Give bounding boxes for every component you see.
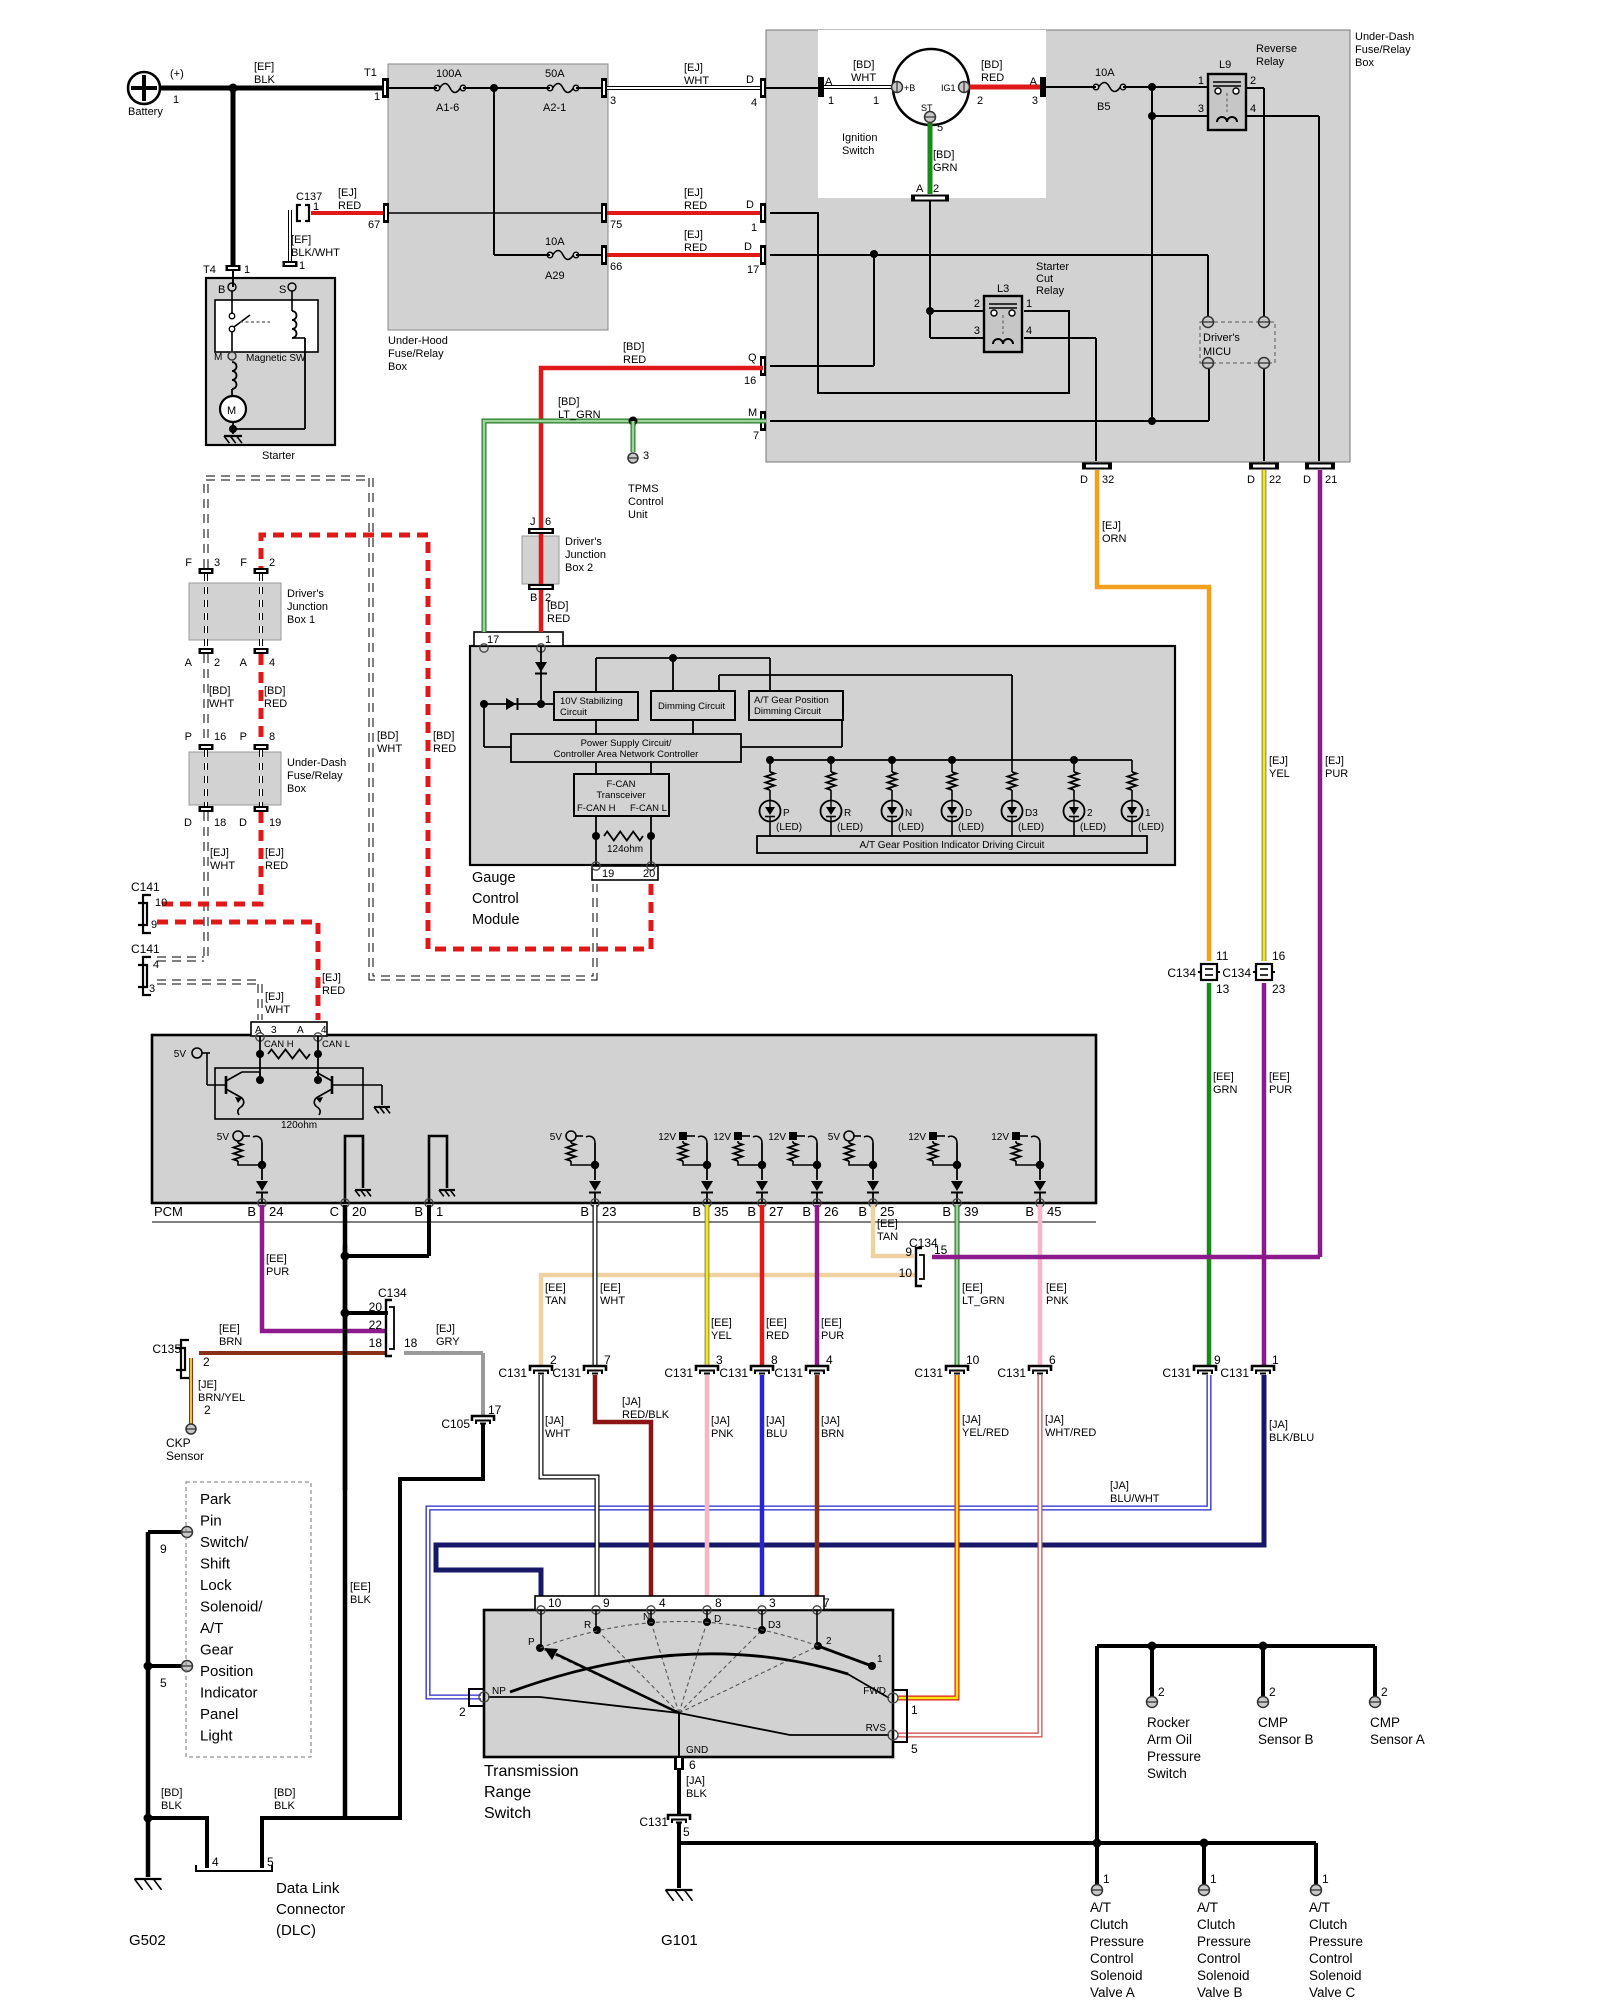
svg-text:3: 3 xyxy=(769,1596,776,1610)
svg-text:Switch/: Switch/ xyxy=(200,1534,249,1551)
svg-text:1: 1 xyxy=(1103,1872,1110,1886)
svg-text:5: 5 xyxy=(911,1742,918,1756)
svg-text:T4: T4 xyxy=(203,264,216,276)
svg-text:[BD]: [BD] xyxy=(547,600,568,612)
svg-text:[EE]: [EE] xyxy=(1213,1071,1234,1083)
svg-text:MICU: MICU xyxy=(1203,346,1231,358)
svg-text:Range: Range xyxy=(484,1784,531,1801)
svg-text:[EJ]: [EJ] xyxy=(265,991,284,1003)
svg-text:A1-6: A1-6 xyxy=(436,102,459,114)
svg-text:B: B xyxy=(692,1204,701,1219)
svg-text:[EJ]: [EJ] xyxy=(684,187,703,199)
svg-text:WHT: WHT xyxy=(684,75,709,87)
svg-text:C131: C131 xyxy=(997,1366,1026,1380)
svg-text:RED: RED xyxy=(433,743,456,755)
svg-text:Fuse/Relay: Fuse/Relay xyxy=(1355,44,1411,56)
svg-text:Control: Control xyxy=(472,891,519,907)
svg-text:Cut: Cut xyxy=(1036,273,1053,285)
svg-text:5V: 5V xyxy=(550,1132,563,1143)
svg-text:B: B xyxy=(1025,1204,1034,1219)
svg-text:A: A xyxy=(255,1025,262,1036)
svg-text:50A: 50A xyxy=(545,68,565,80)
svg-text:B: B xyxy=(580,1204,589,1219)
svg-text:ORN: ORN xyxy=(1102,533,1127,545)
svg-text:B: B xyxy=(530,592,537,604)
svg-text:25: 25 xyxy=(880,1204,894,1219)
svg-text:4: 4 xyxy=(321,1025,327,1036)
svg-text:G101: G101 xyxy=(661,1932,698,1949)
svg-text:5V: 5V xyxy=(174,1049,187,1060)
svg-text:(LED): (LED) xyxy=(958,822,984,833)
svg-text:D: D xyxy=(714,1614,721,1625)
svg-text:RED: RED xyxy=(322,985,345,997)
svg-text:1: 1 xyxy=(299,260,305,272)
svg-text:Sensor B: Sensor B xyxy=(1258,1732,1314,1747)
svg-text:9: 9 xyxy=(603,1596,610,1610)
svg-text:Solenoid: Solenoid xyxy=(1197,1968,1250,1983)
svg-text:RVS: RVS xyxy=(866,1723,887,1734)
svg-text:A/T: A/T xyxy=(200,1620,223,1637)
svg-text:Indicator: Indicator xyxy=(200,1685,258,1702)
svg-text:2: 2 xyxy=(1087,808,1093,819)
svg-text:2: 2 xyxy=(1269,1685,1276,1699)
svg-text:Park: Park xyxy=(200,1491,231,1508)
svg-text:Clutch: Clutch xyxy=(1090,1917,1128,1932)
svg-text:P: P xyxy=(185,731,192,743)
svg-text:18: 18 xyxy=(369,1336,383,1350)
svg-text:11: 11 xyxy=(1216,949,1229,963)
svg-text:[EJ]: [EJ] xyxy=(1325,755,1344,767)
svg-text:9: 9 xyxy=(151,919,157,931)
svg-text:Valve A: Valve A xyxy=(1090,1985,1135,2000)
svg-text:39: 39 xyxy=(964,1204,978,1219)
svg-text:4: 4 xyxy=(659,1596,666,1610)
svg-text:2: 2 xyxy=(550,1353,557,1367)
svg-text:2: 2 xyxy=(1381,1685,1388,1699)
svg-text:Switch: Switch xyxy=(1147,1766,1187,1781)
svg-text:9: 9 xyxy=(1214,1353,1221,1367)
svg-text:[JA]: [JA] xyxy=(545,1415,564,1427)
svg-text:Under-Dash: Under-Dash xyxy=(1355,31,1414,43)
svg-text:R: R xyxy=(584,1620,591,1631)
svg-text:5: 5 xyxy=(160,1676,167,1690)
svg-text:[EE]: [EE] xyxy=(600,1282,621,1294)
svg-text:Solenoid: Solenoid xyxy=(1309,1968,1362,1983)
svg-text:Control: Control xyxy=(1090,1951,1134,1966)
svg-text:2: 2 xyxy=(1250,75,1256,87)
svg-text:20: 20 xyxy=(643,868,655,880)
svg-text:10: 10 xyxy=(899,1266,913,1280)
svg-text:BLK: BLK xyxy=(350,1594,371,1606)
svg-text:RED: RED xyxy=(684,242,707,254)
svg-text:Control: Control xyxy=(1309,1951,1353,1966)
svg-text:[BD]: [BD] xyxy=(209,685,230,697)
svg-text:66: 66 xyxy=(610,261,622,273)
svg-text:RED: RED xyxy=(547,613,570,625)
svg-text:Box: Box xyxy=(287,783,306,795)
svg-text:BLK: BLK xyxy=(254,74,275,86)
svg-text:Under-Hood: Under-Hood xyxy=(388,335,448,347)
svg-text:YEL: YEL xyxy=(711,1330,732,1342)
svg-text:Position: Position xyxy=(200,1663,253,1680)
svg-text:1: 1 xyxy=(828,95,834,107)
svg-text:Box: Box xyxy=(388,361,407,373)
svg-text:Fuse/Relay: Fuse/Relay xyxy=(287,770,343,782)
svg-text:RED: RED xyxy=(766,1330,789,1342)
svg-text:Connector: Connector xyxy=(276,1901,345,1918)
svg-text:(LED): (LED) xyxy=(898,822,924,833)
svg-text:5: 5 xyxy=(937,122,943,134)
svg-text:[EJ]: [EJ] xyxy=(684,229,703,241)
svg-text:4: 4 xyxy=(826,1353,833,1367)
svg-text:[BD]: [BD] xyxy=(558,396,579,408)
svg-text:7: 7 xyxy=(604,1353,611,1367)
svg-text:21: 21 xyxy=(1325,474,1337,486)
svg-text:3: 3 xyxy=(716,1353,723,1367)
svg-text:[EE]: [EE] xyxy=(350,1581,371,1593)
svg-text:[BD]: [BD] xyxy=(377,730,398,742)
svg-text:RED: RED xyxy=(264,698,287,710)
svg-text:TAN: TAN xyxy=(877,1231,898,1243)
svg-text:BLU: BLU xyxy=(766,1428,787,1440)
svg-text:WHT: WHT xyxy=(265,1004,290,1016)
svg-text:CMP: CMP xyxy=(1370,1715,1400,1730)
svg-text:8: 8 xyxy=(269,731,275,743)
svg-text:A/T Gear Position Indicator Dr: A/T Gear Position Indicator Driving Circ… xyxy=(860,840,1045,851)
svg-text:RED: RED xyxy=(684,200,707,212)
svg-text:B5: B5 xyxy=(1097,101,1110,113)
svg-text:CMP: CMP xyxy=(1258,1715,1288,1730)
svg-text:Relay: Relay xyxy=(1256,56,1285,68)
svg-text:D: D xyxy=(184,817,192,829)
svg-text:3: 3 xyxy=(271,1025,277,1036)
svg-text:Gear: Gear xyxy=(200,1642,233,1659)
svg-text:22: 22 xyxy=(369,1318,383,1332)
svg-text:BLK: BLK xyxy=(274,1800,295,1812)
svg-text:N: N xyxy=(643,1612,650,1623)
svg-text:Circuit: Circuit xyxy=(560,707,587,718)
svg-text:20: 20 xyxy=(352,1204,366,1219)
svg-text:Battery: Battery xyxy=(128,106,163,118)
svg-text:1: 1 xyxy=(436,1204,443,1219)
svg-text:TPMS: TPMS xyxy=(628,483,659,495)
svg-text:L9: L9 xyxy=(1219,59,1231,71)
svg-text:[EE]: [EE] xyxy=(266,1253,287,1265)
svg-text:PUR: PUR xyxy=(1325,768,1348,780)
svg-text:F-CAN H: F-CAN H xyxy=(577,803,616,814)
svg-text:WHT: WHT xyxy=(851,72,876,84)
svg-text:1: 1 xyxy=(1145,808,1151,819)
svg-text:B: B xyxy=(247,1204,256,1219)
svg-text:1: 1 xyxy=(911,1703,918,1717)
svg-text:7: 7 xyxy=(753,430,759,442)
svg-text:2: 2 xyxy=(1158,1685,1165,1699)
svg-text:3: 3 xyxy=(610,95,616,107)
svg-text:6: 6 xyxy=(1049,1353,1056,1367)
svg-text:Under-Dash: Under-Dash xyxy=(287,757,346,769)
svg-text:BLU/WHT: BLU/WHT xyxy=(1110,1493,1160,1505)
svg-text:B: B xyxy=(747,1204,756,1219)
svg-text:BLK: BLK xyxy=(161,1800,182,1812)
svg-text:18: 18 xyxy=(214,817,226,829)
svg-text:Solenoid: Solenoid xyxy=(1090,1968,1143,1983)
svg-text:1: 1 xyxy=(545,634,551,646)
svg-text:4: 4 xyxy=(751,97,757,109)
svg-text:Junction: Junction xyxy=(565,549,606,561)
svg-text:1: 1 xyxy=(1198,75,1204,87)
svg-text:Pressure: Pressure xyxy=(1309,1934,1363,1949)
svg-text:Module: Module xyxy=(472,912,520,928)
svg-text:10: 10 xyxy=(548,1596,562,1610)
svg-text:F-CAN: F-CAN xyxy=(606,779,635,790)
svg-text:D: D xyxy=(744,241,752,253)
svg-text:D: D xyxy=(239,817,247,829)
svg-text:Driver's: Driver's xyxy=(1203,332,1240,344)
svg-text:C131: C131 xyxy=(719,1366,748,1380)
svg-text:6: 6 xyxy=(689,1758,696,1772)
svg-text:YEL/RED: YEL/RED xyxy=(962,1427,1009,1439)
svg-text:PUR: PUR xyxy=(1269,1084,1292,1096)
svg-text:[JA]: [JA] xyxy=(711,1415,730,1427)
svg-text:[BD]: [BD] xyxy=(433,730,454,742)
svg-text:A/T: A/T xyxy=(1090,1900,1111,1915)
svg-text:Valve B: Valve B xyxy=(1197,1985,1243,2000)
svg-text:CAN H: CAN H xyxy=(264,1039,294,1050)
svg-text:C131: C131 xyxy=(664,1366,693,1380)
svg-text:4: 4 xyxy=(269,657,275,669)
svg-text:M: M xyxy=(748,407,757,419)
svg-text:BRN: BRN xyxy=(219,1336,242,1348)
svg-text:D: D xyxy=(1080,474,1088,486)
svg-text:Dimming Circuit: Dimming Circuit xyxy=(754,706,821,717)
svg-text:PNK: PNK xyxy=(711,1428,734,1440)
svg-text:GRY: GRY xyxy=(436,1336,460,1348)
svg-text:Fuse/Relay: Fuse/Relay xyxy=(388,348,444,360)
svg-text:(LED): (LED) xyxy=(776,822,802,833)
svg-text:L3: L3 xyxy=(997,283,1009,295)
svg-text:9: 9 xyxy=(160,1542,167,1556)
svg-text:F-CAN L: F-CAN L xyxy=(630,803,667,814)
svg-text:[EE]: [EE] xyxy=(219,1323,240,1335)
svg-text:Controller Area Network Contro: Controller Area Network Controller xyxy=(554,749,699,760)
svg-text:[EE]: [EE] xyxy=(766,1317,787,1329)
svg-text:A: A xyxy=(825,76,833,88)
svg-text:C141: C141 xyxy=(131,880,160,894)
svg-text:10: 10 xyxy=(155,897,167,909)
svg-text:C131: C131 xyxy=(774,1366,803,1380)
svg-text:5V: 5V xyxy=(217,1132,230,1143)
svg-text:LT_GRN: LT_GRN xyxy=(962,1295,1005,1307)
svg-text:G502: G502 xyxy=(129,1932,166,1949)
svg-text:Sensor: Sensor xyxy=(166,1449,204,1463)
svg-text:3: 3 xyxy=(643,450,649,462)
svg-text:35: 35 xyxy=(714,1204,728,1219)
svg-text:A: A xyxy=(240,657,248,669)
svg-text:Driver's: Driver's xyxy=(287,588,324,600)
svg-text:[JA]: [JA] xyxy=(766,1415,785,1427)
svg-text:5V: 5V xyxy=(828,1132,841,1143)
svg-text:16: 16 xyxy=(744,375,756,387)
svg-text:PUR: PUR xyxy=(266,1266,289,1278)
svg-text:9: 9 xyxy=(905,1245,912,1259)
svg-text:S: S xyxy=(279,284,286,296)
svg-text:16: 16 xyxy=(214,731,226,743)
svg-text:A/T: A/T xyxy=(1309,1900,1330,1915)
svg-text:(DLC): (DLC) xyxy=(276,1922,316,1939)
svg-text:RED: RED xyxy=(265,860,288,872)
svg-text:Power Supply Circuit/: Power Supply Circuit/ xyxy=(581,738,672,749)
svg-text:[BD]: [BD] xyxy=(623,341,644,353)
svg-text:WHT: WHT xyxy=(377,743,402,755)
svg-text:[JA]: [JA] xyxy=(821,1415,840,1427)
svg-text:C131: C131 xyxy=(1220,1366,1249,1380)
svg-text:1: 1 xyxy=(877,1654,883,1665)
svg-text:C131: C131 xyxy=(914,1366,943,1380)
svg-text:3: 3 xyxy=(974,325,980,337)
svg-text:C141: C141 xyxy=(131,942,160,956)
svg-text:Starter: Starter xyxy=(1036,261,1069,273)
svg-text:16: 16 xyxy=(1272,949,1286,963)
svg-text:Transmission: Transmission xyxy=(484,1763,579,1780)
svg-text:26: 26 xyxy=(824,1204,838,1219)
svg-text:Panel: Panel xyxy=(200,1706,238,1723)
svg-text:17: 17 xyxy=(487,634,499,646)
svg-text:[EE]: [EE] xyxy=(711,1317,732,1329)
svg-text:Ignition: Ignition xyxy=(842,132,877,144)
svg-text:C131: C131 xyxy=(498,1366,527,1380)
svg-text:Box 1: Box 1 xyxy=(287,614,315,626)
svg-text:[JA]: [JA] xyxy=(1045,1414,1064,1426)
svg-text:CKP: CKP xyxy=(166,1436,191,1450)
svg-text:BLK: BLK xyxy=(686,1788,707,1800)
svg-text:[JA]: [JA] xyxy=(962,1414,981,1426)
svg-text:C131: C131 xyxy=(639,1815,668,1829)
svg-text:RED/BLK: RED/BLK xyxy=(622,1409,670,1421)
svg-text:T1: T1 xyxy=(364,67,377,79)
svg-text:J: J xyxy=(530,516,536,528)
svg-text:3: 3 xyxy=(214,557,220,569)
svg-text:3: 3 xyxy=(149,983,155,995)
svg-text:1: 1 xyxy=(244,264,250,276)
svg-text:LT_GRN: LT_GRN xyxy=(558,409,601,421)
svg-text:F: F xyxy=(240,557,247,569)
svg-text:1: 1 xyxy=(173,94,179,106)
svg-text:Box 2: Box 2 xyxy=(565,562,593,574)
svg-text:2: 2 xyxy=(933,183,939,195)
svg-text:Unit: Unit xyxy=(628,509,648,521)
svg-text:[BD]: [BD] xyxy=(264,685,285,697)
svg-text:M: M xyxy=(227,405,236,417)
svg-text:[JA]: [JA] xyxy=(622,1396,641,1408)
svg-text:Driver's: Driver's xyxy=(565,536,602,548)
svg-text:Pressure: Pressure xyxy=(1197,1934,1251,1949)
svg-text:[EE]: [EE] xyxy=(821,1317,842,1329)
svg-text:1: 1 xyxy=(1272,1353,1279,1367)
svg-text:32: 32 xyxy=(1102,474,1114,486)
svg-text:B: B xyxy=(802,1204,811,1219)
svg-text:Pressure: Pressure xyxy=(1090,1934,1144,1949)
svg-text:Switch: Switch xyxy=(842,145,874,157)
svg-text:4: 4 xyxy=(1026,325,1032,337)
svg-text:Magnetic SW: Magnetic SW xyxy=(246,353,306,364)
svg-text:4: 4 xyxy=(153,959,159,971)
svg-text:P: P xyxy=(240,731,247,743)
svg-text:WHT: WHT xyxy=(209,698,234,710)
svg-text:100A: 100A xyxy=(436,68,462,80)
svg-text:C131: C131 xyxy=(1162,1366,1191,1380)
svg-text:[BD]: [BD] xyxy=(981,59,1002,71)
svg-text:D: D xyxy=(1247,474,1255,486)
svg-text:6: 6 xyxy=(545,516,551,528)
svg-text:[EJ]: [EJ] xyxy=(1102,520,1121,532)
svg-text:120ohm: 120ohm xyxy=(281,1120,317,1131)
svg-text:D3: D3 xyxy=(768,1620,781,1631)
svg-text:(LED): (LED) xyxy=(1018,822,1044,833)
svg-text:13: 13 xyxy=(1216,982,1230,996)
svg-text:Control: Control xyxy=(1197,1951,1241,1966)
svg-text:A/T Gear Position: A/T Gear Position xyxy=(754,695,829,706)
svg-text:12V: 12V xyxy=(713,1132,731,1143)
svg-text:2: 2 xyxy=(204,1403,211,1417)
svg-text:Valve C: Valve C xyxy=(1309,1985,1356,2000)
svg-text:TAN: TAN xyxy=(545,1295,566,1307)
svg-text:Gauge: Gauge xyxy=(472,870,516,886)
svg-text:18: 18 xyxy=(404,1336,418,1350)
svg-text:RED: RED xyxy=(981,72,1004,84)
svg-text:B: B xyxy=(218,284,225,296)
svg-text:[EJ]: [EJ] xyxy=(1269,755,1288,767)
svg-text:[EJ]: [EJ] xyxy=(265,847,284,859)
svg-text:[BD]: [BD] xyxy=(274,1787,295,1799)
svg-text:2: 2 xyxy=(214,657,220,669)
svg-text:3: 3 xyxy=(1032,95,1038,107)
svg-text:GND: GND xyxy=(686,1745,708,1756)
svg-text:[EE]: [EE] xyxy=(1046,1282,1067,1294)
svg-text:WHT/RED: WHT/RED xyxy=(1045,1427,1096,1439)
svg-text:Sensor A: Sensor A xyxy=(1370,1732,1425,1747)
svg-text:[EJ]: [EJ] xyxy=(436,1323,455,1335)
svg-text:Data Link: Data Link xyxy=(276,1880,340,1897)
svg-text:BRN: BRN xyxy=(821,1428,844,1440)
svg-text:(LED): (LED) xyxy=(837,822,863,833)
svg-text:[EE]: [EE] xyxy=(545,1282,566,1294)
svg-text:Relay: Relay xyxy=(1036,285,1065,297)
svg-text:8: 8 xyxy=(715,1596,722,1610)
svg-text:Dimming Circuit: Dimming Circuit xyxy=(658,701,725,712)
svg-text:1: 1 xyxy=(313,201,319,213)
svg-text:Reverse: Reverse xyxy=(1256,43,1297,55)
svg-text:(LED): (LED) xyxy=(1080,822,1106,833)
svg-text:C134: C134 xyxy=(1167,966,1196,980)
svg-text:27: 27 xyxy=(769,1204,783,1219)
svg-text:(LED): (LED) xyxy=(1138,822,1164,833)
svg-text:4: 4 xyxy=(1250,103,1256,115)
svg-text:B: B xyxy=(942,1204,951,1219)
svg-text:D: D xyxy=(965,808,972,819)
svg-text:C: C xyxy=(330,1204,339,1219)
svg-text:2: 2 xyxy=(974,298,980,310)
svg-text:1: 1 xyxy=(751,222,757,234)
svg-text:F: F xyxy=(185,557,192,569)
svg-text:1: 1 xyxy=(1026,298,1032,310)
svg-text:1: 1 xyxy=(1322,1872,1329,1886)
svg-text:WHT: WHT xyxy=(545,1428,570,1440)
svg-text:D: D xyxy=(746,199,754,211)
svg-text:2: 2 xyxy=(203,1355,210,1369)
svg-text:23: 23 xyxy=(602,1204,616,1219)
svg-text:C105: C105 xyxy=(441,1417,470,1431)
svg-text:1: 1 xyxy=(1210,1872,1217,1886)
